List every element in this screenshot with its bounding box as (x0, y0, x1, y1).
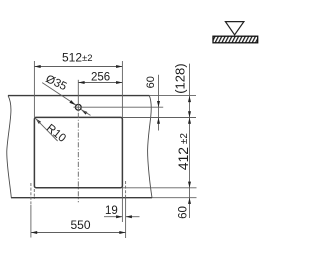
leader Ø35: arrow to circle lower-right (81, 110, 87, 115)
dimension 60 top: dimension line with overruns (158, 75, 160, 131)
dimension 256: dimension line (78, 82, 122, 84)
cutout vertical centerline (dash-dot) (77, 113, 79, 203)
dimension 19: dashed sink-rim line right (125, 181, 127, 198)
faucet hole Ø35 (75, 104, 81, 110)
dimension 512±2: right arrow (116, 65, 122, 68)
svg-text:550: 550 (71, 218, 91, 232)
leader R10: line (35, 118, 57, 141)
chain arrow up at worktop bottom edge (188, 198, 191, 204)
chain arrow down at cutout top edge (188, 111, 191, 117)
dimension 19: dimension line right part (126, 216, 140, 218)
right chained dimension line (128)/412±2/60 (189, 64, 191, 218)
svg-text:(128): (128) (173, 63, 188, 93)
dimension 550: extension line left solid (30, 205, 32, 238)
left break line (wavy) (7, 96, 12, 198)
worktop bottom edge (11, 197, 152, 199)
svg-text:412 ±2: 412 ±2 (175, 133, 191, 171)
dimension 550: right arrow (119, 231, 125, 234)
right break line (wavy) (148, 96, 152, 198)
dimension 550: short dashed line at cutout left edge (33, 189, 35, 199)
dimension 512±2: left arrow (34, 65, 40, 68)
cutout bottom edge extension line (right, ref for 412/60) (122, 187, 196, 189)
dimension 60 top: outside arrow pointing up at cutout top edge (157, 118, 160, 124)
leader Ø35: line upper segment (42, 83, 76, 105)
svg-text:R10: R10 (44, 122, 68, 145)
chain arrow up at worktop top edge (188, 96, 191, 102)
dimension 19: sink-rim extension solid below (125, 198, 127, 238)
dimension 19: arrow left-pointing (126, 215, 132, 218)
dimension 512±2: extension line left (33, 61, 35, 117)
dimension 256: left arrow (78, 81, 84, 84)
dimension 512±2: extension line right (121, 61, 123, 117)
cutout rectangle R10 (34, 117, 122, 187)
worktop cross-section symbol: hatched bar (213, 36, 258, 43)
chain arrow down at cutout bottom edge (188, 182, 191, 188)
dimension 550: dashed sink-rim line left (30, 183, 32, 205)
worktop top edge (8, 95, 149, 97)
dimension 60 top: outside arrow pointing down at hole centerline (157, 101, 160, 107)
chain arrow up at cutout top edge (188, 118, 191, 124)
leader R10: arrow to corner (35, 118, 41, 124)
dimension 19: arrow right-pointing (116, 215, 122, 218)
cutout top edge extension line (right, ref for 128/412) (122, 117, 196, 119)
worktop cross-section symbol: triangle (225, 22, 244, 35)
svg-text:Ø35: Ø35 (44, 73, 69, 93)
dimension 512±2: dimension line (34, 66, 122, 68)
worktop top edge extension line (right, ref for 60 and 128) (149, 95, 196, 97)
dimension 550: left arrow (31, 231, 37, 234)
leader Ø35: arrow to circle upper-left (69, 100, 75, 105)
svg-text:256: 256 (91, 71, 110, 83)
dimension 19: dimension line left part (104, 216, 122, 218)
svg-text:512±2: 512±2 (62, 50, 93, 64)
faucet hole horizontal centerline + extension to 60-dim (74, 106, 164, 108)
worktop bottom edge extension line (right, ref for 60) (152, 197, 197, 199)
leader Ø35: tail segment (81, 109, 91, 115)
svg-text:60: 60 (177, 206, 189, 219)
faucet hole vertical centerline (upper, ext for 256) (77, 80, 79, 112)
dimension 19: extension line solid (cutout right edge) (121, 188, 123, 222)
svg-text:60: 60 (145, 76, 157, 88)
dimension 550: dimension line (31, 232, 126, 234)
dimension 256: right arrow (116, 81, 122, 84)
svg-text:19: 19 (105, 205, 118, 217)
